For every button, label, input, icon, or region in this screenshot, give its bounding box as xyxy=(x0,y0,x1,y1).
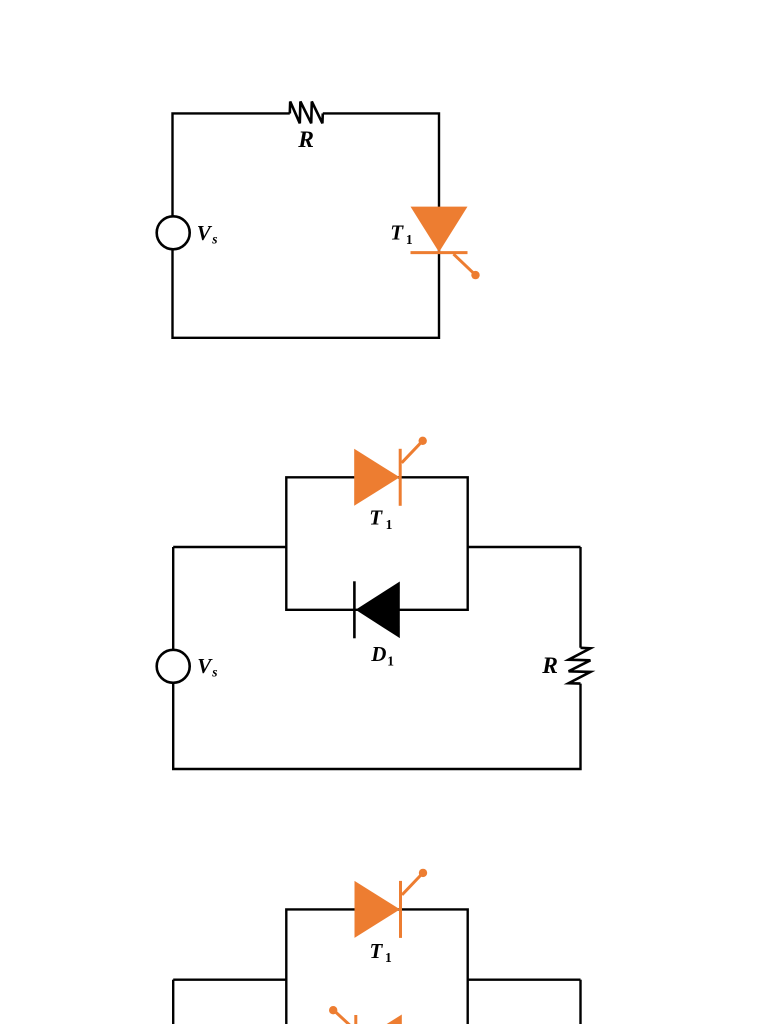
svg-text:Vs: Vs xyxy=(197,654,217,680)
parallel box wires (partially cut) xyxy=(286,909,467,1024)
svg-text:T1: T1 xyxy=(370,939,393,965)
rail left xyxy=(173,546,286,548)
resistor R (right, vertical zigzag) xyxy=(569,648,591,684)
thyristor T2 (bottom branch, pointing left, mostly cut off) xyxy=(329,1006,402,1024)
diode D1 (bottom branch, pointing left) xyxy=(354,581,399,638)
svg-text:D1: D1 xyxy=(370,642,394,669)
svg-text:T1: T1 xyxy=(369,506,392,532)
outer left wire xyxy=(172,980,174,1024)
svg-text:T1: T1 xyxy=(390,221,413,247)
thyristor T1 (top branch, pointing right) xyxy=(355,869,428,938)
source Vs circle xyxy=(157,216,190,249)
rail right xyxy=(468,546,581,548)
thyristor T1 (top branch, pointing right) xyxy=(354,437,427,506)
parallel box wires xyxy=(286,477,467,610)
svg-text:Vs: Vs xyxy=(197,221,218,247)
source Vs circle xyxy=(157,650,190,683)
thyristor T1 (right branch, pointing down) xyxy=(411,207,480,280)
svg-text:R: R xyxy=(541,653,558,679)
svg-text:R: R xyxy=(297,127,314,153)
rail right xyxy=(468,979,581,981)
rail left xyxy=(173,979,286,981)
outer right wire xyxy=(579,980,581,1024)
resistor R (top, horizontal zigzag) xyxy=(290,102,323,124)
wire loop circuit 1 xyxy=(173,113,440,337)
outer loop with resistor gap xyxy=(173,547,580,769)
